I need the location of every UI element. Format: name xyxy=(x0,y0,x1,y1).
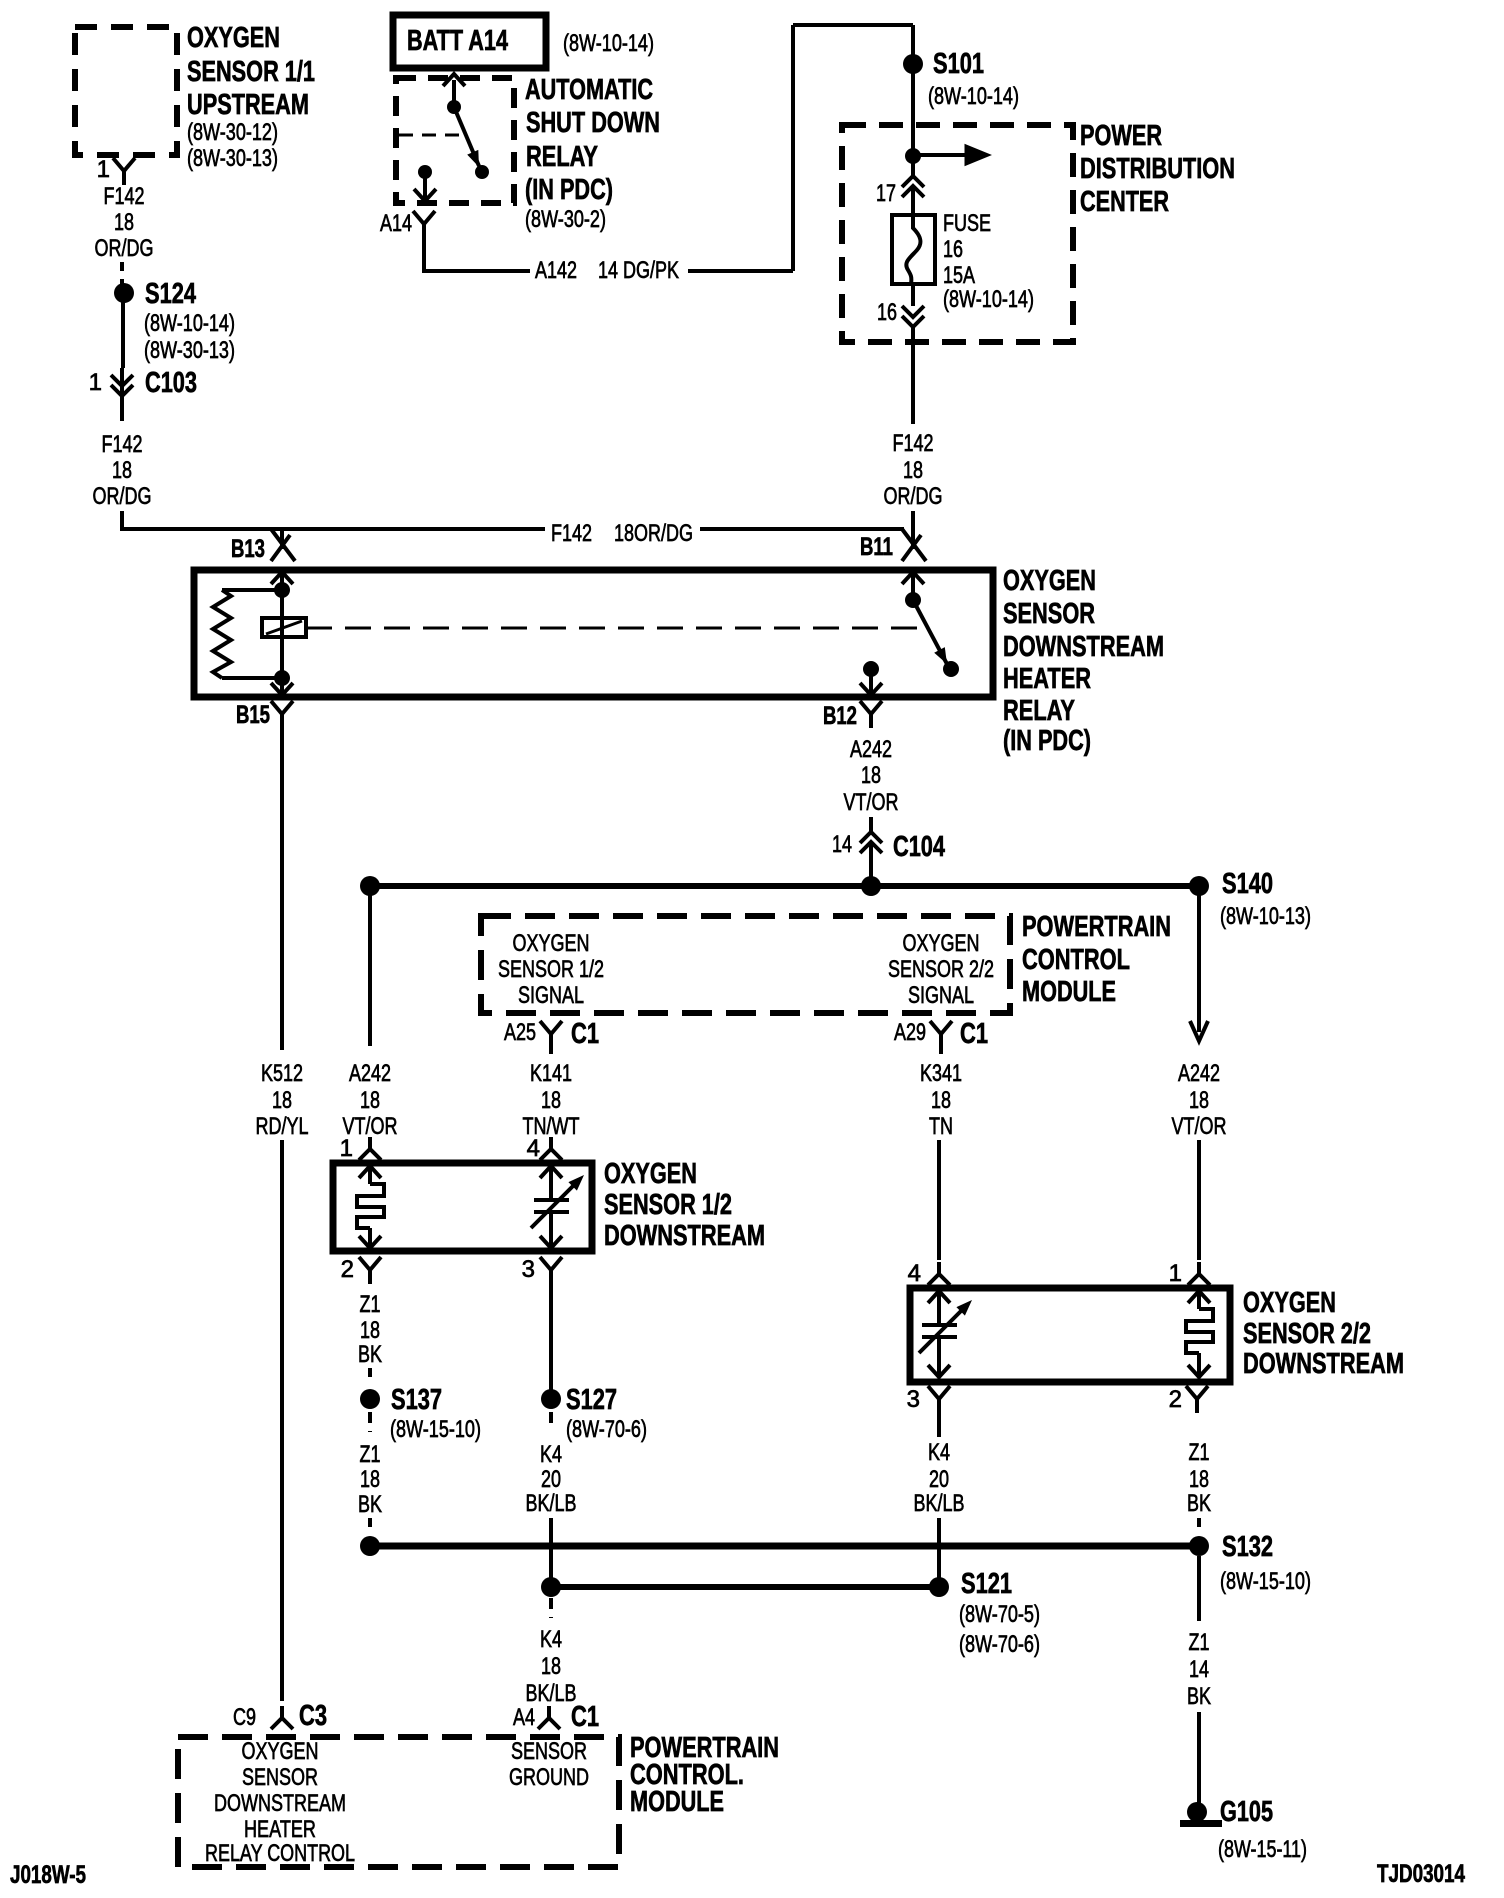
wire K512 18 RD/YL from B15 to C9 xyxy=(256,728,309,1701)
wire from S124 to C103 xyxy=(121,302,125,368)
pin 2 connector of sensor 2/2 xyxy=(1169,1386,1208,1413)
svg-text:S124: S124 xyxy=(145,278,196,310)
svg-text:DOWNSTREAM: DOWNSTREAM xyxy=(214,1790,346,1817)
pin 1 connector of oxygen sensor 1/1 xyxy=(97,156,135,185)
svg-text:(8W-15-11): (8W-15-11) xyxy=(1218,1836,1307,1863)
svg-text:B13: B13 xyxy=(231,535,265,563)
svg-text:RELAY: RELAY xyxy=(1003,695,1075,727)
powertrain control module (top, dashed box) xyxy=(481,911,1171,1013)
svg-text:(IN PDC): (IN PDC) xyxy=(525,174,613,206)
svg-text:BK: BK xyxy=(358,1341,382,1368)
connector B15 xyxy=(236,701,293,729)
svg-text:OXYGEN: OXYGEN xyxy=(1003,565,1096,597)
svg-text:C9: C9 xyxy=(233,1704,256,1731)
svg-text:(8W-10-14): (8W-10-14) xyxy=(144,310,235,337)
svg-text:HEATER: HEATER xyxy=(1003,663,1091,695)
svg-text:B15: B15 xyxy=(236,701,270,729)
svg-text:RELAY CONTROL: RELAY CONTROL xyxy=(205,1840,355,1867)
svg-text:A14: A14 xyxy=(380,210,412,237)
svg-text:16: 16 xyxy=(943,236,963,263)
wire A242 18 VT/OR from S140 to sensor 2/2 pin 1 xyxy=(1172,886,1227,1260)
svg-text:OXYGEN: OXYGEN xyxy=(903,930,980,957)
sensing element of sensor 2/2 xyxy=(919,1291,972,1377)
svg-text:4: 4 xyxy=(527,1135,540,1162)
svg-text:F142: F142 xyxy=(551,520,592,547)
svg-text:SHUT DOWN: SHUT DOWN xyxy=(526,107,660,139)
svg-text:K512: K512 xyxy=(261,1060,303,1087)
svg-text:SENSOR 1/2: SENSOR 1/2 xyxy=(604,1189,732,1221)
svg-text:18: 18 xyxy=(360,1317,380,1344)
ASD relay switch arm and contacts xyxy=(399,74,489,201)
oxygen sensor downstream heater relay (box) xyxy=(194,565,1164,757)
svg-text:A25: A25 xyxy=(504,1019,536,1046)
powertrain control module (bottom, dashed box) xyxy=(178,1732,779,1867)
splice bus S140 xyxy=(360,868,1311,930)
oxygen sensor 1/2 downstream (box) xyxy=(333,1158,765,1252)
wire K4 20 BK/LB from S127 to S121 xyxy=(526,1441,577,1587)
svg-text:20: 20 xyxy=(929,1466,949,1493)
wire from bus to S101 xyxy=(911,25,915,125)
connector C103 pin 1 xyxy=(89,367,197,399)
svg-text:MODULE: MODULE xyxy=(1022,976,1116,1008)
pin 4 connector of sensor 2/2 xyxy=(908,1260,950,1287)
connector B12 xyxy=(823,701,882,730)
svg-text:S140: S140 xyxy=(1222,868,1273,900)
svg-text:DOWNSTREAM: DOWNSTREAM xyxy=(604,1220,765,1252)
svg-text:20: 20 xyxy=(541,1466,561,1493)
svg-text:C3: C3 xyxy=(299,1700,327,1732)
wire Z1 14 BK from S132 to G105 xyxy=(1187,1556,1211,1806)
svg-text:OXYGEN: OXYGEN xyxy=(242,1738,319,1765)
svg-text:BK: BK xyxy=(358,1491,382,1518)
svg-text:18: 18 xyxy=(272,1087,292,1114)
wire A242 18 VT/OR from B12 to C104 xyxy=(844,736,899,832)
svg-text:17: 17 xyxy=(876,180,896,207)
battery feed BATT A14 xyxy=(393,15,654,68)
wire A242 18 VT/OR from S140 to sensor 1/2 pin 1 xyxy=(343,886,398,1140)
svg-text:18: 18 xyxy=(541,1653,561,1680)
svg-text:CENTER: CENTER xyxy=(1080,186,1169,218)
splice bus S132 xyxy=(360,1531,1311,1595)
svg-text:J018W-5: J018W-5 xyxy=(10,1861,86,1889)
svg-text:C1: C1 xyxy=(960,1018,988,1050)
svg-text:K4: K4 xyxy=(540,1626,562,1653)
svg-text:CONTROL: CONTROL xyxy=(1022,944,1130,976)
svg-text:(8W-10-14): (8W-10-14) xyxy=(943,286,1034,313)
pin 16 connector of PDC xyxy=(877,284,924,327)
wire Z1 18 BK from sensor 2/2 pin 2 to S132 xyxy=(1187,1439,1211,1533)
svg-text:SENSOR: SENSOR xyxy=(1003,598,1095,630)
svg-text:POWERTRAIN: POWERTRAIN xyxy=(1022,911,1171,943)
relay coil xyxy=(262,618,920,637)
wire A142 14 DG/PK from A14 to PDC feed xyxy=(424,25,913,284)
svg-text:S101: S101 xyxy=(933,48,984,80)
svg-text:18: 18 xyxy=(360,1466,380,1493)
svg-text:OXYGEN: OXYGEN xyxy=(604,1158,697,1190)
svg-text:UPSTREAM: UPSTREAM xyxy=(187,89,309,121)
svg-text:14: 14 xyxy=(1189,1656,1209,1683)
connector B13 xyxy=(231,529,295,563)
svg-text:15A: 15A xyxy=(943,262,975,289)
svg-text:VT/OR: VT/OR xyxy=(844,789,899,816)
pin 2 connector of sensor 1/2 xyxy=(341,1256,381,1284)
svg-text:FUSE: FUSE xyxy=(943,210,991,237)
power distribution center (dashed box) xyxy=(842,120,1235,342)
svg-text:(8W-10-14): (8W-10-14) xyxy=(563,30,654,57)
svg-text:BK/LB: BK/LB xyxy=(914,1490,965,1517)
svg-text:A29: A29 xyxy=(894,1019,926,1046)
svg-text:18: 18 xyxy=(112,457,132,484)
svg-text:(8W-30-13): (8W-30-13) xyxy=(144,337,235,364)
splice S137 xyxy=(360,1384,481,1443)
svg-text:A242: A242 xyxy=(850,736,892,763)
svg-text:(8W-10-14): (8W-10-14) xyxy=(928,83,1019,110)
svg-text:SENSOR: SENSOR xyxy=(511,1738,587,1765)
svg-text:G105: G105 xyxy=(1220,1796,1273,1828)
svg-text:4: 4 xyxy=(908,1260,921,1287)
svg-text:(8W-15-10): (8W-15-10) xyxy=(1220,1568,1311,1595)
node / feed arrow inside PDC xyxy=(905,125,988,176)
svg-text:BK: BK xyxy=(1187,1490,1211,1517)
svg-text:Z1: Z1 xyxy=(1189,1629,1210,1656)
svg-text:K141: K141 xyxy=(530,1060,572,1087)
svg-text:C103: C103 xyxy=(145,367,197,399)
svg-text:Z1: Z1 xyxy=(360,1441,381,1468)
svg-text:18: 18 xyxy=(360,1087,380,1114)
svg-text:S127: S127 xyxy=(566,1384,617,1416)
svg-text:OXYGEN: OXYGEN xyxy=(1243,1287,1336,1319)
svg-text:F142: F142 xyxy=(104,183,145,210)
svg-text:S121: S121 xyxy=(961,1568,1012,1600)
svg-text:18OR/DG: 18OR/DG xyxy=(614,520,693,547)
svg-text:(8W-30-13): (8W-30-13) xyxy=(187,145,278,172)
connector C104 pin 14 xyxy=(832,831,945,886)
svg-text:C1: C1 xyxy=(571,1018,599,1050)
svg-text:TN: TN xyxy=(929,1113,953,1140)
svg-text:OR/DG: OR/DG xyxy=(95,235,154,262)
svg-text:SIGNAL: SIGNAL xyxy=(518,982,584,1009)
wire Z1 18 BK from pin 2 to S137 xyxy=(358,1291,382,1382)
svg-text:VT/OR: VT/OR xyxy=(1172,1113,1227,1140)
svg-text:(8W-30-12): (8W-30-12) xyxy=(187,119,278,146)
svg-text:A142: A142 xyxy=(535,257,577,284)
svg-text:18: 18 xyxy=(931,1087,951,1114)
svg-text:14 DG/PK: 14 DG/PK xyxy=(598,257,679,284)
svg-text:(IN PDC): (IN PDC) xyxy=(1003,725,1091,757)
svg-text:K4: K4 xyxy=(540,1441,562,1468)
svg-text:RELAY: RELAY xyxy=(526,141,598,173)
pin A29 connector C1 xyxy=(894,1018,988,1050)
svg-text:C104: C104 xyxy=(893,831,945,863)
wire F142 18 OR/DG from fuse to B11 xyxy=(884,327,943,531)
svg-text:B12: B12 xyxy=(823,702,857,730)
svg-text:BK/LB: BK/LB xyxy=(526,1490,577,1517)
svg-text:OR/DG: OR/DG xyxy=(93,483,152,510)
svg-text:B11: B11 xyxy=(860,533,893,561)
svg-text:Z1: Z1 xyxy=(1189,1439,1210,1466)
svg-text:SENSOR: SENSOR xyxy=(242,1764,318,1791)
pin A25 connector C1 xyxy=(504,1018,599,1050)
svg-text:(8W-10-13): (8W-10-13) xyxy=(1220,903,1311,930)
svg-text:(8W-30-2): (8W-30-2) xyxy=(525,206,606,233)
pin A14 connector of ASD relay xyxy=(380,210,435,238)
svg-text:POWER: POWER xyxy=(1080,120,1162,152)
oxygen sensor 1/1 upstream (dashed box) xyxy=(75,22,315,172)
splice S127 xyxy=(541,1384,647,1443)
svg-text:SENSOR 2/2: SENSOR 2/2 xyxy=(888,956,994,983)
svg-text:(8W-70-6): (8W-70-6) xyxy=(959,1631,1040,1658)
wire Z1 18 BK from S137 to S132 xyxy=(358,1441,382,1533)
svg-text:18: 18 xyxy=(1189,1087,1209,1114)
svg-text:(8W-15-10): (8W-15-10) xyxy=(390,1416,481,1443)
svg-text:F142: F142 xyxy=(893,430,934,457)
svg-text:S132: S132 xyxy=(1222,1531,1273,1563)
svg-text:A242: A242 xyxy=(349,1060,391,1087)
wire K4 20 BK/LB from sensor 2/2 pin 3 to S121 xyxy=(914,1413,965,1587)
wire K341 18 TN from A29 to sensor 2/2 pin 4 xyxy=(920,1048,962,1260)
pin 1 connector of sensor 2/2 xyxy=(1169,1260,1210,1287)
svg-text:18: 18 xyxy=(903,457,923,484)
svg-text:18: 18 xyxy=(114,209,134,236)
svg-text:DOWNSTREAM: DOWNSTREAM xyxy=(1003,631,1164,663)
svg-text:14: 14 xyxy=(832,831,852,858)
svg-text:A242: A242 xyxy=(1178,1060,1220,1087)
svg-text:DISTRIBUTION: DISTRIBUTION xyxy=(1080,153,1235,185)
pin 4 connector of sensor 1/2 xyxy=(527,1135,562,1162)
svg-text:(8W-70-5): (8W-70-5) xyxy=(959,1601,1040,1628)
pin 3 connector of sensor 1/2 xyxy=(522,1256,562,1284)
pin C9 connector C3 xyxy=(233,1700,327,1732)
svg-text:1: 1 xyxy=(340,1135,353,1162)
svg-text:BK/LB: BK/LB xyxy=(526,1680,577,1707)
svg-text:18: 18 xyxy=(861,762,881,789)
svg-text:A4: A4 xyxy=(513,1704,535,1731)
svg-text:3: 3 xyxy=(907,1386,920,1413)
svg-text:2: 2 xyxy=(341,1256,354,1283)
svg-text:3: 3 xyxy=(522,1256,535,1283)
heater element of sensor 2/2 xyxy=(1186,1291,1213,1377)
splice bus S121 xyxy=(541,1568,1040,1658)
svg-text:C1: C1 xyxy=(571,1701,599,1733)
splice S124 xyxy=(114,278,235,364)
svg-text:HEATER: HEATER xyxy=(244,1816,316,1843)
svg-text:BK: BK xyxy=(1187,1683,1211,1710)
svg-text:DOWNSTREAM: DOWNSTREAM xyxy=(1243,1348,1404,1380)
svg-text:K341: K341 xyxy=(920,1060,962,1087)
relay coil resistor xyxy=(213,590,282,678)
svg-text:S137: S137 xyxy=(391,1384,442,1416)
svg-text:AUTOMATIC: AUTOMATIC xyxy=(525,74,653,106)
wire K141 18 TN/WT from A25 to sensor 1/2 pin 4 xyxy=(523,1048,580,1140)
svg-text:SIGNAL: SIGNAL xyxy=(908,982,974,1009)
footer sheet codes xyxy=(10,1860,1465,1889)
relay: automatic shut down relay (in PDC), dashed box xyxy=(396,74,660,233)
svg-text:K4: K4 xyxy=(928,1439,950,1466)
pin 17 connector of PDC xyxy=(876,176,924,215)
sensing element of sensor 1/2 xyxy=(531,1166,584,1248)
svg-text:SENSOR 2/2: SENSOR 2/2 xyxy=(1243,1318,1371,1350)
connector B11 xyxy=(860,529,926,561)
ground G105 xyxy=(1180,1796,1307,1863)
wire F142 18 OR/DG from sensor 1/1 to S124 xyxy=(95,183,154,284)
wire F142 18OR/DG bus xyxy=(122,520,904,547)
svg-text:18: 18 xyxy=(1189,1466,1209,1493)
svg-text:MODULE: MODULE xyxy=(630,1786,724,1818)
svg-text:2: 2 xyxy=(1169,1386,1182,1413)
svg-text:F142: F142 xyxy=(102,431,143,458)
svg-text:OR/DG: OR/DG xyxy=(884,483,943,510)
svg-text:(8W-70-6): (8W-70-6) xyxy=(566,1416,647,1443)
svg-text:16: 16 xyxy=(877,299,897,326)
wire F142 18 OR/DG from C103 to bus xyxy=(93,396,152,531)
svg-text:Z1: Z1 xyxy=(360,1291,381,1318)
oxygen sensor 2/2 downstream (box) xyxy=(910,1287,1404,1382)
svg-text:1: 1 xyxy=(97,156,110,183)
svg-text:BATT A14: BATT A14 xyxy=(407,25,508,57)
wire K4 18 BK/LB from S121 to A4 xyxy=(526,1598,577,1707)
wire from pin 3 to S127 xyxy=(549,1284,553,1390)
svg-text:SENSOR 1/2: SENSOR 1/2 xyxy=(498,956,604,983)
svg-text:1: 1 xyxy=(1169,1260,1182,1287)
fuse 16 15A xyxy=(892,210,1034,313)
svg-text:1: 1 xyxy=(89,369,102,396)
svg-text:OXYGEN: OXYGEN xyxy=(187,22,280,54)
svg-text:18: 18 xyxy=(541,1087,561,1114)
relay switch (B11 to B12) xyxy=(271,572,959,695)
heater element of sensor 1/2 xyxy=(357,1166,384,1248)
svg-text:GROUND: GROUND xyxy=(509,1764,589,1791)
pin 1 connector of sensor 1/2 xyxy=(340,1135,381,1162)
pin 3 connector of sensor 2/2 xyxy=(907,1386,950,1413)
splice S101 xyxy=(903,48,1019,110)
pin A4 connector C1 xyxy=(513,1701,599,1733)
svg-text:SENSOR 1/1: SENSOR 1/1 xyxy=(187,56,315,88)
svg-text:RD/YL: RD/YL xyxy=(256,1113,309,1140)
svg-text:OXYGEN: OXYGEN xyxy=(513,930,590,957)
svg-text:TJD03014: TJD03014 xyxy=(1377,1860,1465,1888)
